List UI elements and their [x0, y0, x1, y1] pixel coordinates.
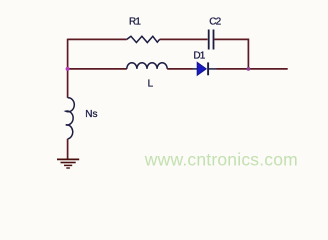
wire: second rail from left junction to inductor L	[68, 68, 127, 70]
resistor R1	[127, 36, 160, 42]
diode D1	[193, 62, 217, 75]
capacitor C2	[209, 30, 214, 50]
svg-text:R1: R1	[129, 16, 141, 27]
node: junction dot right	[247, 67, 251, 71]
inductor L	[127, 63, 167, 69]
wire: top rail right of C2 with corner down to junction	[214, 39, 248, 69]
wire: second rail between L and D1	[167, 68, 192, 70]
node: junction dot left	[66, 67, 70, 71]
ground	[57, 159, 79, 168]
svg-text:L: L	[148, 79, 154, 90]
svg-text:Ns: Ns	[85, 109, 97, 120]
svg-text:C2: C2	[209, 16, 221, 27]
inductor Ns	[66, 98, 75, 139]
wire: from Ns coil down to ground	[67, 139, 69, 160]
wire: second rail from diode through right junction to open end	[217, 68, 288, 70]
svg-text:www.cntronics.com: www.cntronics.com	[144, 150, 298, 170]
svg-text:D1: D1	[193, 51, 205, 62]
wire: top rail between R1 and C2	[160, 38, 208, 40]
wire: left vertical from top corner down to Ns coil	[67, 39, 69, 98]
wire: top rail left segment (corner to R1)	[68, 38, 127, 40]
